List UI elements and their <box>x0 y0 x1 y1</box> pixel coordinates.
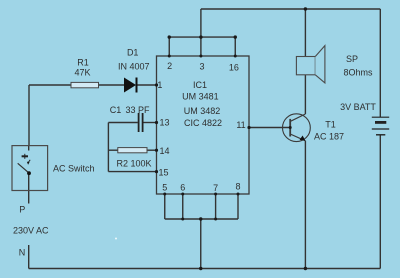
switch plus mark <box>22 154 28 159</box>
svg-text:13: 13 <box>159 118 169 128</box>
svg-text:AC 187: AC 187 <box>314 132 344 142</box>
svg-text:15: 15 <box>158 168 168 178</box>
wire left vertical to switch <box>28 85 30 146</box>
svg-text:T1: T1 <box>325 120 336 130</box>
svg-text:8: 8 <box>235 182 240 192</box>
svg-text:UM 3481: UM 3481 <box>182 92 219 102</box>
svg-text:5: 5 <box>162 183 167 193</box>
wire main horizontal pin1 <box>29 84 157 86</box>
svg-text:3: 3 <box>199 62 204 72</box>
switch lever <box>18 163 29 173</box>
svg-text:47K: 47K <box>74 68 90 78</box>
transistor T1 <box>283 114 311 142</box>
wire pin14 R2 left <box>108 149 117 151</box>
wire left loop vertical <box>107 123 109 172</box>
wire through switch top <box>28 146 30 151</box>
AC switch box <box>12 146 48 191</box>
wire R2 to pin14 <box>147 149 157 151</box>
wire pin6 stub <box>182 194 184 219</box>
wire riser IC top bus to rail <box>200 9 202 37</box>
wire C1 to pin13 <box>143 122 156 124</box>
svg-text:P: P <box>19 205 25 215</box>
svg-text:33 PF: 33 PF <box>125 105 150 115</box>
wire switch bottom to P <box>28 174 30 204</box>
wire pin3 stub <box>200 37 202 56</box>
wire pin13 to C1 <box>108 122 137 124</box>
wire top bus <box>169 36 235 38</box>
wire pin15 <box>108 171 156 173</box>
svg-text:D1: D1 <box>127 48 139 58</box>
wire N stub <box>28 245 30 269</box>
resistor R1 <box>71 82 99 87</box>
svg-text:7: 7 <box>213 183 218 193</box>
wire bottom bus <box>165 218 238 220</box>
svg-text:AC Switch: AC Switch <box>53 164 95 174</box>
battery BT1 <box>372 117 389 135</box>
svg-text:R2 100K: R2 100K <box>116 159 151 169</box>
white speck <box>115 238 117 240</box>
diode D1 <box>124 78 137 93</box>
wire bottom rail <box>29 268 381 270</box>
wire pin16 stub <box>234 37 236 56</box>
svg-text:UM 3482: UM 3482 <box>184 106 221 116</box>
svg-text:IC1: IC1 <box>193 80 207 90</box>
svg-text:IN 4007: IN 4007 <box>118 62 150 72</box>
svg-text:N: N <box>19 248 26 258</box>
wire speaker to collector <box>304 75 306 114</box>
wire speaker drop <box>304 9 306 57</box>
wire pin2 stub <box>168 37 170 56</box>
wire top rail <box>201 8 380 10</box>
switch contact dot <box>27 171 31 175</box>
wire pin5 stub <box>164 194 166 219</box>
wire pin7 stub <box>215 194 217 219</box>
svg-text:R1: R1 <box>77 58 89 68</box>
wire bus drop to rail <box>200 219 202 269</box>
svg-text:1: 1 <box>157 80 162 90</box>
svg-text:16: 16 <box>229 63 239 73</box>
wire pin11 to base <box>249 127 290 129</box>
svg-text:CIC 4822: CIC 4822 <box>184 118 222 128</box>
capacitor C1 <box>139 113 143 132</box>
speaker SP <box>296 46 325 83</box>
wire emitter to rail <box>304 141 306 269</box>
svg-text:14: 14 <box>159 146 169 156</box>
switch contact tick <box>28 160 30 163</box>
svg-text:11: 11 <box>236 120 245 130</box>
wire right rail upper (top rail to battery plus) <box>379 9 381 117</box>
svg-text:8Ohms: 8Ohms <box>343 68 373 78</box>
svg-text:6: 6 <box>180 183 185 193</box>
svg-text:3V BATT: 3V BATT <box>340 102 376 112</box>
svg-text:C1: C1 <box>110 105 122 115</box>
IC U1 box <box>157 56 250 194</box>
svg-text:230V AC: 230V AC <box>13 226 49 236</box>
svg-text:SP: SP <box>346 54 358 64</box>
resistor R2 <box>118 148 147 153</box>
wire pin8 stub <box>237 194 239 219</box>
svg-text:2: 2 <box>167 61 172 71</box>
wire right rail lower (battery minus to bottom) <box>379 135 381 269</box>
